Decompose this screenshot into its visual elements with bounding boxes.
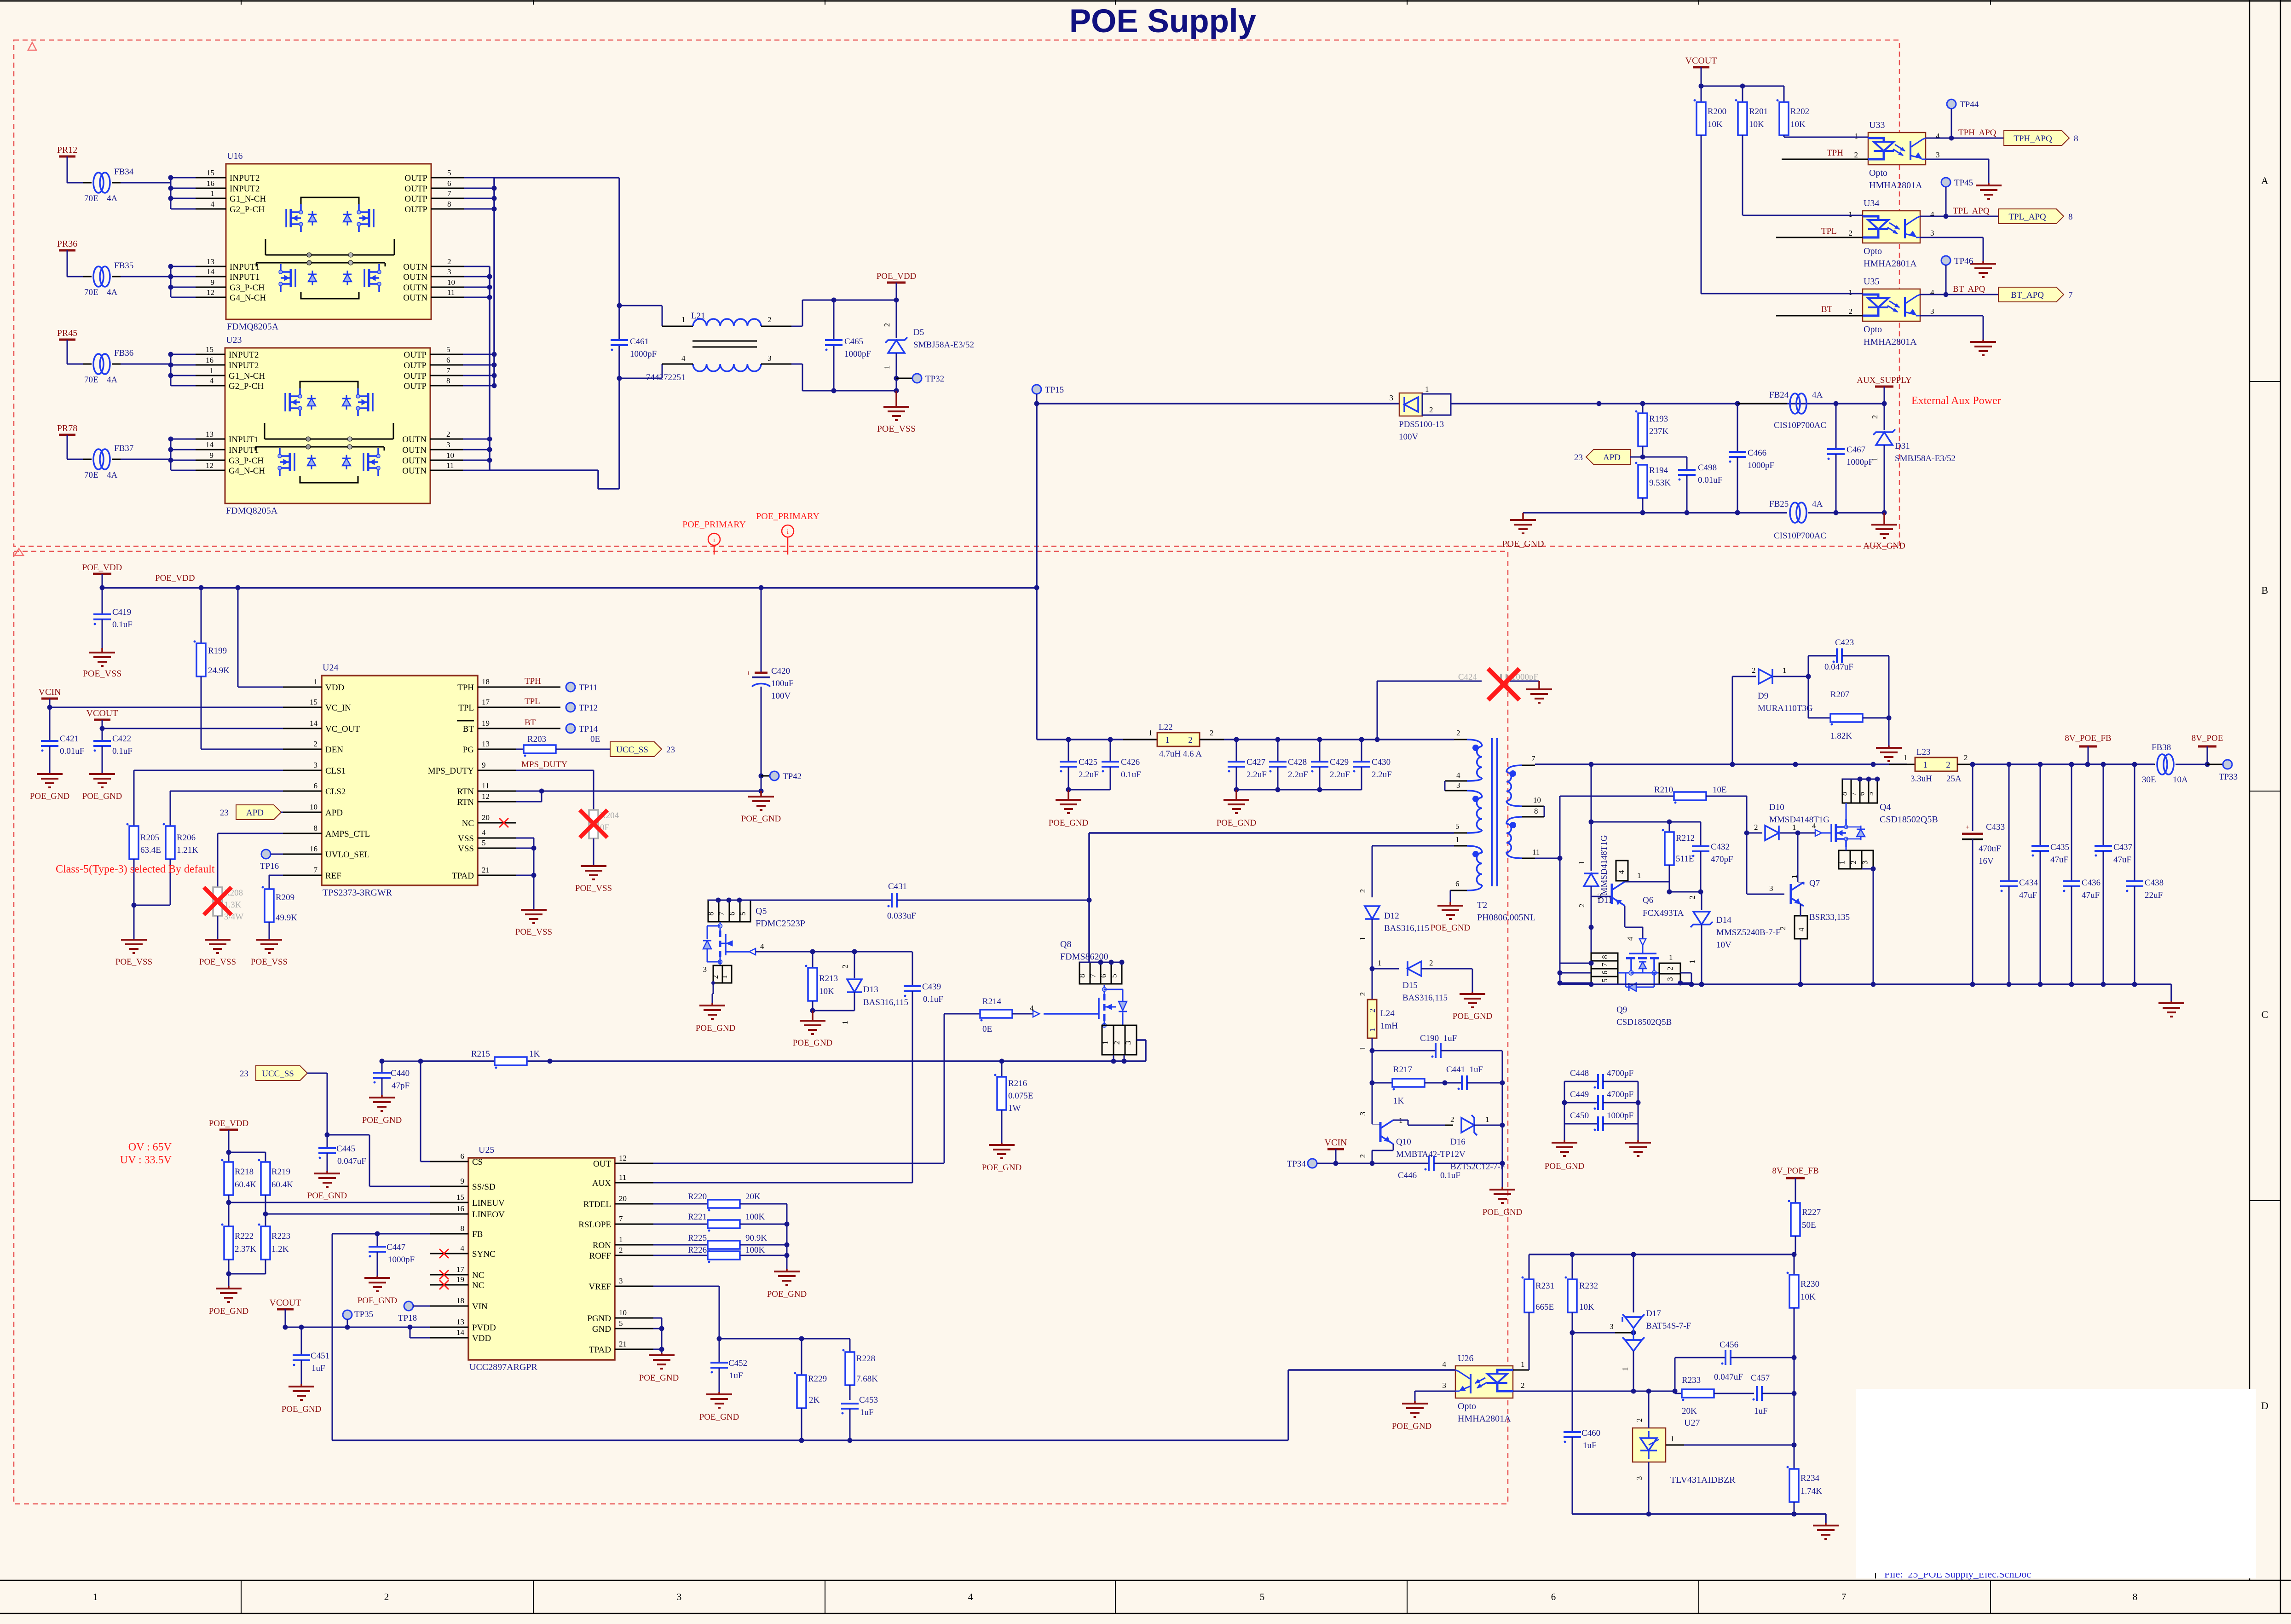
svg-text:R200: R200 xyxy=(1708,107,1726,116)
svg-text:C447: C447 xyxy=(387,1243,405,1252)
wire CLS2 to R206 xyxy=(170,791,283,792)
svg-text:19: 19 xyxy=(456,1275,464,1284)
svg-text:4700pF: 4700pF xyxy=(1607,1069,1633,1078)
wire input rail y1607 xyxy=(1037,739,1038,740)
wire output rail 8V from T2 pin7 xyxy=(1535,763,1907,765)
testpoint TP45 xyxy=(1941,178,1951,187)
svg-text:1K: 1K xyxy=(1393,1096,1404,1106)
wire divider bottom join xyxy=(229,1273,265,1275)
svg-text:1: 1 xyxy=(1783,666,1787,675)
svg-text:TPS2373-3RGWR: TPS2373-3RGWR xyxy=(323,888,392,898)
wire Q6 collector node to D14 xyxy=(1669,891,1702,893)
svg-text:C441 1uF: C441 1uF xyxy=(1446,1065,1483,1075)
svg-text:Q5: Q5 xyxy=(756,906,767,916)
svg-text:0E: 0E xyxy=(982,1024,992,1034)
ground POE_GND below C427 xyxy=(1223,799,1249,801)
U23 left pins xyxy=(171,354,196,355)
resistor R204 crossed out 0E xyxy=(589,810,598,838)
svg-text:POE_GND: POE_GND xyxy=(696,1023,736,1033)
svg-text:R205: R205 xyxy=(140,833,159,843)
svg-text:TPH APQ: TPH APQ xyxy=(1958,128,1997,138)
svg-text:T2: T2 xyxy=(1477,900,1487,910)
svg-text:2: 2 xyxy=(619,1246,623,1254)
wire PGND GND TPAD to ground xyxy=(653,1318,662,1319)
svg-text:8: 8 xyxy=(2133,1591,2138,1602)
svg-text:1: 1 xyxy=(1455,835,1460,844)
resistor R209 49.9K xyxy=(265,889,274,922)
capacitor bank C448 C449 C450 xyxy=(1564,1081,1565,1124)
svg-text:C439: C439 xyxy=(922,982,941,992)
region marker triangle primary section xyxy=(15,549,23,555)
svg-text:R234: R234 xyxy=(1800,1474,1820,1483)
wire opto diode node xyxy=(1513,1391,1675,1392)
svg-text:C430: C430 xyxy=(1372,757,1391,767)
svg-text:4A: 4A xyxy=(107,470,118,480)
testpoint TP14 xyxy=(566,724,575,733)
resistor R203 0E on PG xyxy=(516,749,524,750)
svg-text:OUTN: OUTN xyxy=(403,272,427,282)
svg-text:4: 4 xyxy=(1930,288,1934,297)
wire OUT to gate resistor xyxy=(653,1163,944,1164)
svg-text:17: 17 xyxy=(482,698,490,706)
wire C424 branch xyxy=(1377,681,1378,740)
svg-text:4: 4 xyxy=(1626,936,1634,941)
svg-text:4: 4 xyxy=(1797,927,1806,931)
resistor R200 10K xyxy=(1701,86,1702,102)
svg-text:OUTN: OUTN xyxy=(403,283,427,293)
svg-text:BAS316,115: BAS316,115 xyxy=(1402,993,1448,1003)
svg-text:TPL_APQ: TPL_APQ xyxy=(2008,212,2046,222)
svg-text:1mH: 1mH xyxy=(1380,1021,1398,1031)
svg-text:NC: NC xyxy=(472,1281,484,1290)
svg-text:2: 2 xyxy=(1849,229,1853,237)
testpoint TP44 xyxy=(1947,99,1956,109)
svg-text:1uF: 1uF xyxy=(860,1408,874,1417)
svg-text:6: 6 xyxy=(1099,974,1108,978)
wire L21 lower branch xyxy=(619,378,662,379)
testpoint TP35 xyxy=(343,1310,352,1319)
svg-text:16: 16 xyxy=(456,1204,464,1213)
svg-text:RSLOPE: RSLOPE xyxy=(578,1220,611,1230)
svg-text:UCC2897ARGPR: UCC2897ARGPR xyxy=(469,1362,537,1372)
svg-text:C457: C457 xyxy=(1751,1373,1770,1383)
svg-text:POE_PRIMARY: POE_PRIMARY xyxy=(682,520,746,530)
svg-text:POE_VDD: POE_VDD xyxy=(877,272,917,281)
svg-text:C419: C419 xyxy=(112,607,131,617)
svg-text:OV : 65V: OV : 65V xyxy=(128,1141,172,1153)
svg-text:R221: R221 xyxy=(688,1212,707,1222)
svg-text:11: 11 xyxy=(446,461,454,470)
capacitor C438 22uF xyxy=(2134,764,2135,881)
svg-text:1: 1 xyxy=(1621,1367,1629,1371)
svg-text:RTN: RTN xyxy=(457,787,474,797)
svg-text:OUTN: OUTN xyxy=(402,456,427,466)
svg-text:5: 5 xyxy=(447,168,451,177)
svg-text:2: 2 xyxy=(1666,966,1674,971)
svg-text:TP42: TP42 xyxy=(783,772,802,781)
svg-text:1.82K: 1.82K xyxy=(1830,731,1852,741)
T2 polarity dots primary xyxy=(1472,745,1479,751)
svg-text:APD: APD xyxy=(325,808,343,818)
ground right of cap bank xyxy=(1638,1124,1639,1140)
U16 right pins OUTP/OUTN xyxy=(431,177,464,179)
svg-text:FB25: FB25 xyxy=(1769,499,1789,509)
dashed region box POE primary section xyxy=(14,551,1508,1504)
svg-text:70E: 70E xyxy=(84,375,98,385)
capacitor C426 0.1uF xyxy=(1110,740,1111,761)
wire PVDD VDD xyxy=(285,1327,430,1328)
svg-text:10: 10 xyxy=(619,1308,627,1317)
svg-text:2: 2 xyxy=(1635,1418,1644,1422)
ground POE_GND at D15 xyxy=(1472,992,1473,994)
svg-text:FDMQ8205A: FDMQ8205A xyxy=(226,506,278,516)
ground at secondary rail xyxy=(2170,984,2172,1001)
svg-text:4.7uH 4.6 A: 4.7uH 4.6 A xyxy=(1159,749,1202,759)
svg-text:7: 7 xyxy=(717,912,726,916)
ground POE_VSS at D5 xyxy=(894,388,899,393)
svg-text:3: 3 xyxy=(677,1591,682,1602)
wire TPL to TP12 xyxy=(516,707,560,708)
svg-text:3: 3 xyxy=(1610,1322,1614,1331)
svg-text:TPL: TPL xyxy=(525,697,540,706)
testpoint TP16 xyxy=(261,850,271,859)
svg-text:RON: RON xyxy=(593,1241,611,1250)
svg-text:RTN: RTN xyxy=(457,798,474,807)
svg-text:60.4K: 60.4K xyxy=(235,1180,256,1190)
wire OUTP bus vertical xyxy=(493,178,495,386)
svg-text:0.01uF: 0.01uF xyxy=(1698,475,1722,485)
ground POE_GND left of cap bank xyxy=(1564,1124,1565,1140)
svg-text:1: 1 xyxy=(1669,953,1673,962)
svg-text:13: 13 xyxy=(207,257,214,266)
wire T2 pin11 to return column xyxy=(1535,858,1560,859)
transformer T2 PH0806.005NL xyxy=(1467,740,1482,746)
svg-text:OUTP: OUTP xyxy=(404,205,427,214)
svg-text:U27: U27 xyxy=(1684,1418,1700,1428)
svg-text:TP16: TP16 xyxy=(260,861,279,871)
optocoupler U34 HMHA2801A xyxy=(1863,211,1920,243)
svg-text:OUTP: OUTP xyxy=(404,173,427,183)
svg-text:G2_P-CH: G2_P-CH xyxy=(230,205,265,214)
svg-text:U16: U16 xyxy=(227,151,242,161)
svg-text:16: 16 xyxy=(310,844,317,853)
svg-text:BT_APQ: BT_APQ xyxy=(2011,290,2044,300)
svg-text:0E: 0E xyxy=(590,734,600,744)
svg-text:INPUT1: INPUT1 xyxy=(229,435,259,445)
svg-text:C434: C434 xyxy=(2019,878,2038,888)
svg-text:TP11: TP11 xyxy=(579,683,597,693)
svg-text:1: 1 xyxy=(841,1021,849,1025)
wire U35 emitter to ground xyxy=(1920,315,1983,317)
svg-text:MMSD4148T1G: MMSD4148T1G xyxy=(1769,815,1829,825)
ferrite bead FB25 CIS10P700AC xyxy=(1790,503,1800,523)
svg-text:0.047uF: 0.047uF xyxy=(1824,662,1853,672)
no-connect cross SYNC xyxy=(439,1249,449,1258)
svg-text:2.37K: 2.37K xyxy=(235,1244,256,1254)
capacitor C467 1000pF xyxy=(1835,404,1837,449)
svg-text:AMPS_CTL: AMPS_CTL xyxy=(325,829,370,839)
svg-text:14: 14 xyxy=(206,440,214,449)
svg-text:OUTN: OUTN xyxy=(402,435,427,445)
svg-text:3: 3 xyxy=(314,761,318,769)
svg-text:1: 1 xyxy=(211,189,215,198)
capacitor C445 0.047uF xyxy=(327,1135,328,1148)
svg-text:UCC_SS: UCC_SS xyxy=(262,1069,294,1079)
svg-text:21: 21 xyxy=(619,1340,627,1348)
wire U34 output to port TPL_APQ xyxy=(1920,216,1998,217)
svg-text:U25: U25 xyxy=(479,1145,494,1155)
svg-text:2: 2 xyxy=(314,740,318,748)
svg-text:OUTN: OUTN xyxy=(403,262,427,272)
ground POE_GND at C421 xyxy=(37,773,63,775)
svg-text:1uF: 1uF xyxy=(312,1364,325,1373)
wire FB route xyxy=(332,1233,430,1235)
svg-text:INPUT2: INPUT2 xyxy=(230,173,260,183)
inductor L22 4.7uH 4.6A xyxy=(1123,739,1157,740)
wire U33 emitter to ground xyxy=(1926,159,1989,160)
resistor R206 1.21K xyxy=(166,826,175,859)
svg-text:4: 4 xyxy=(681,354,686,363)
resistor R219 60.4K xyxy=(265,1152,266,1162)
svg-text:8: 8 xyxy=(461,1224,465,1233)
svg-text:PH0806.005NL: PH0806.005NL xyxy=(1477,913,1535,923)
svg-text:GND: GND xyxy=(592,1324,611,1334)
svg-text:FB35: FB35 xyxy=(114,261,133,271)
capacitor C446 0.1uF xyxy=(1372,1163,1429,1164)
svg-text:OUT: OUT xyxy=(593,1159,611,1169)
svg-text:2: 2 xyxy=(1188,735,1193,745)
wire FB36 to gate bus xyxy=(121,364,171,365)
svg-text:Opto: Opto xyxy=(1864,246,1882,256)
svg-text:R230: R230 xyxy=(1800,1279,1819,1289)
svg-text:C445: C445 xyxy=(336,1144,355,1154)
svg-text:7: 7 xyxy=(314,866,318,874)
svg-text:C429: C429 xyxy=(1330,757,1349,767)
svg-text:C465: C465 xyxy=(844,337,863,347)
svg-text:AUX_GND: AUX_GND xyxy=(1863,541,1905,551)
svg-text:14: 14 xyxy=(207,267,215,276)
svg-text:1: 1 xyxy=(883,365,891,370)
svg-text:MURA110T3G: MURA110T3G xyxy=(1758,704,1813,713)
wire AUX to C439 xyxy=(653,1182,912,1184)
resistor R202 10K xyxy=(1779,102,1789,135)
svg-text:OUTN: OUTN xyxy=(402,466,427,476)
wire T2 pin2 from input rail xyxy=(1454,739,1467,740)
svg-text:TPAD: TPAD xyxy=(589,1345,611,1355)
resistor R205 63.4E xyxy=(129,826,138,859)
svg-text:C449: C449 xyxy=(1570,1090,1589,1099)
svg-text:2.2uF: 2.2uF xyxy=(1330,770,1350,780)
svg-text:R215: R215 xyxy=(471,1049,490,1059)
svg-text:APD: APD xyxy=(1603,453,1621,462)
svg-text:12: 12 xyxy=(207,288,214,297)
wire VDD pin feed xyxy=(237,588,239,687)
svg-text:8: 8 xyxy=(1840,792,1849,796)
svg-text:1: 1 xyxy=(210,366,214,375)
svg-text:0.075E: 0.075E xyxy=(1008,1091,1033,1101)
svg-text:4: 4 xyxy=(1617,870,1626,874)
capacitor C436 47uF xyxy=(2071,764,2072,881)
svg-text:R212: R212 xyxy=(1676,833,1695,843)
svg-text:6: 6 xyxy=(1455,879,1460,888)
svg-text:OUTP: OUTP xyxy=(404,194,427,204)
resistor R212 511E xyxy=(1669,822,1670,832)
power flag POE_VDD left xyxy=(93,573,111,575)
svg-text:2: 2 xyxy=(1210,728,1214,737)
MOSFET Q9 CSD18502Q5B xyxy=(1591,953,1618,961)
svg-text:TP32: TP32 xyxy=(925,374,944,384)
ground POE_VSS below R204 xyxy=(581,865,606,867)
svg-text:8V_POE: 8V_POE xyxy=(2192,734,2223,743)
svg-text:4: 4 xyxy=(760,942,764,951)
svg-text:5: 5 xyxy=(1866,792,1875,796)
svg-text:R214: R214 xyxy=(982,997,1002,1006)
svg-text:Q7: Q7 xyxy=(1809,878,1820,888)
svg-text:FB36: FB36 xyxy=(114,348,133,358)
svg-text:1W: 1W xyxy=(1008,1104,1021,1113)
ferrite bead FB37 xyxy=(83,459,92,460)
wire R201 to U34 pin1 xyxy=(1743,215,1863,216)
svg-text:G4_N-CH: G4_N-CH xyxy=(230,293,266,303)
svg-text:POE Supply: POE Supply xyxy=(1069,3,1257,40)
svg-text:TP15: TP15 xyxy=(1045,385,1064,395)
svg-text:UVLO_SEL: UVLO_SEL xyxy=(325,850,369,860)
region marker triangle top-left xyxy=(28,42,36,50)
no-connect cross U24 pin20 xyxy=(499,818,508,827)
svg-text:20: 20 xyxy=(482,813,490,822)
svg-text:MMSD4148T1G: MMSD4148T1G xyxy=(1599,835,1609,895)
ground POE_VSS at U24 VSS xyxy=(521,909,547,911)
diode D13 BAS316,115 xyxy=(854,952,855,978)
svg-text:1: 1 xyxy=(1521,1360,1525,1369)
svg-text:External Aux Power: External Aux Power xyxy=(1911,395,2001,407)
svg-text:CSD18502Q5B: CSD18502Q5B xyxy=(1880,815,1938,825)
svg-text:MMBTA42-TP: MMBTA42-TP xyxy=(1396,1150,1450,1159)
resistor R213 10K xyxy=(812,952,814,968)
transistor Q10 MMBTA42-TP xyxy=(1372,1083,1373,1122)
svg-text:100uF: 100uF xyxy=(771,679,794,688)
svg-text:9: 9 xyxy=(211,278,215,287)
svg-text:R201: R201 xyxy=(1749,107,1768,116)
svg-text:HMHA2801A: HMHA2801A xyxy=(1458,1414,1511,1424)
svg-text:3: 3 xyxy=(1666,977,1674,981)
svg-text:1000pF: 1000pF xyxy=(1847,457,1873,467)
svg-text:LINEUV: LINEUV xyxy=(472,1198,505,1208)
svg-text:LINEOV: LINEOV xyxy=(472,1210,505,1219)
svg-text:4700pF: 4700pF xyxy=(1607,1090,1633,1099)
svg-text:R216: R216 xyxy=(1008,1079,1027,1088)
wire T2 pin1 to D12 xyxy=(1372,845,1454,847)
svg-text:9: 9 xyxy=(210,451,214,460)
svg-text:D5: D5 xyxy=(913,328,924,337)
svg-text:47uF: 47uF xyxy=(2082,890,2100,900)
svg-text:60.4K: 60.4K xyxy=(271,1180,293,1190)
svg-text:1: 1 xyxy=(1688,960,1697,964)
svg-text:1: 1 xyxy=(1670,1434,1674,1443)
svg-text:1: 1 xyxy=(1838,861,1847,865)
no-connect cross NC17 xyxy=(439,1270,449,1279)
svg-text:3: 3 xyxy=(1861,861,1870,865)
svg-text:0.01uF: 0.01uF xyxy=(60,746,84,756)
ground POE_GND at T2 pin6 xyxy=(1449,902,1451,906)
svg-text:POE_GND: POE_GND xyxy=(1217,818,1257,828)
svg-text:4: 4 xyxy=(1443,1360,1447,1369)
U23 internal quad MOSFET bridge xyxy=(284,393,286,411)
svg-text:TP45: TP45 xyxy=(1954,178,1973,188)
capacitor C435 47uF xyxy=(2040,764,2041,845)
svg-text:2: 2 xyxy=(841,965,849,969)
svg-text:TPH: TPH xyxy=(525,676,541,686)
svg-text:2: 2 xyxy=(1854,150,1858,159)
svg-text:C433: C433 xyxy=(1986,822,2005,832)
svg-text:9.53K: 9.53K xyxy=(1649,478,1671,488)
svg-text:UCC_SS: UCC_SS xyxy=(616,745,648,755)
svg-text:CLS1: CLS1 xyxy=(325,766,346,776)
wire LINEOV xyxy=(263,1212,268,1217)
svg-text:1: 1 xyxy=(1792,823,1796,832)
svg-text:2: 2 xyxy=(1752,666,1756,675)
svg-text:1: 1 xyxy=(1165,735,1170,745)
svg-text:POE_GND: POE_GND xyxy=(741,814,781,824)
svg-text:Q4: Q4 xyxy=(1880,802,1891,812)
svg-text:R210: R210 xyxy=(1654,785,1673,795)
svg-text:8: 8 xyxy=(446,376,450,385)
svg-text:20: 20 xyxy=(619,1194,627,1203)
svg-text:VCIN: VCIN xyxy=(1325,1138,1347,1148)
svg-text:3: 3 xyxy=(1124,1041,1133,1045)
svg-text:TP18: TP18 xyxy=(398,1313,417,1323)
svg-text:50E: 50E xyxy=(1802,1220,1816,1230)
svg-text:16: 16 xyxy=(206,356,214,364)
wire REF to R209 xyxy=(269,875,283,876)
wire OUTN bus vertical xyxy=(489,266,491,470)
ferrite bead FB35 xyxy=(83,276,92,277)
MOSFET Q5 FDMC2523P package pins top xyxy=(708,900,719,922)
ground at C424 xyxy=(1538,681,1540,689)
svg-text:14: 14 xyxy=(456,1328,465,1337)
svg-text:D14: D14 xyxy=(1716,915,1731,925)
svg-text:4: 4 xyxy=(211,200,215,208)
svg-text:TPH: TPH xyxy=(457,683,474,693)
svg-text:C436: C436 xyxy=(2082,878,2101,888)
svg-text:7: 7 xyxy=(1841,1591,1847,1602)
svg-text:R206: R206 xyxy=(177,833,196,843)
resistor R230 10K xyxy=(1794,1254,1795,1275)
svg-text:0.1uF: 0.1uF xyxy=(112,746,133,756)
svg-text:POE_GND: POE_GND xyxy=(1431,923,1471,933)
ground POE_GND below R220 bank xyxy=(786,1269,788,1271)
svg-text:PDS5100-13: PDS5100-13 xyxy=(1399,420,1444,429)
svg-text:1000pF: 1000pF xyxy=(1607,1111,1633,1121)
svg-text:2: 2 xyxy=(1368,1009,1377,1013)
svg-text:8: 8 xyxy=(314,824,318,832)
ferrite bead FB34 xyxy=(83,182,92,184)
resistor R193 237K xyxy=(1642,404,1644,413)
svg-text:1: 1 xyxy=(1849,210,1853,219)
net label flag UCC_SS at PG xyxy=(610,742,662,757)
wire Q6 emitter to Q9 gate xyxy=(1624,906,1626,927)
wire CLS1 to R205 xyxy=(134,770,283,771)
svg-text:0.1uF: 0.1uF xyxy=(1440,1171,1460,1180)
svg-text:CSD18502Q5B: CSD18502Q5B xyxy=(1616,1017,1672,1027)
svg-text:C435: C435 xyxy=(2050,843,2069,852)
svg-text:2: 2 xyxy=(768,315,772,324)
svg-text:G4_N-CH: G4_N-CH xyxy=(229,466,265,476)
svg-text:NC: NC xyxy=(462,819,474,828)
svg-text:TLV431AIDBZR: TLV431AIDBZR xyxy=(1670,1475,1736,1485)
U23 input bus left xyxy=(170,354,172,386)
svg-text:C432: C432 xyxy=(1711,842,1730,852)
